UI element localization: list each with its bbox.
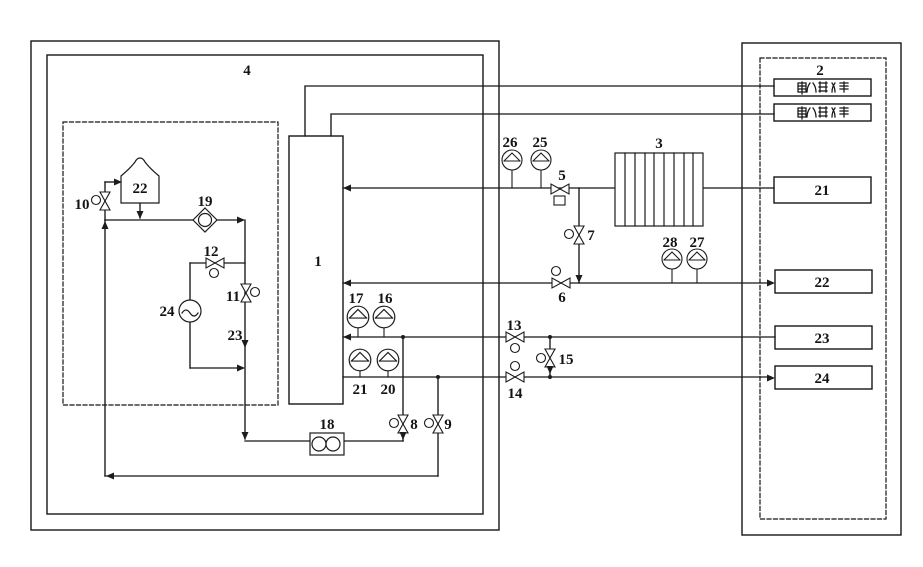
radiator 3: [615, 153, 703, 226]
svg-text:27: 27: [690, 235, 706, 251]
load box 22: [775, 270, 872, 293]
arrow end of pump19 line: [237, 217, 245, 224]
arrow bottom return left corner: [106, 473, 114, 480]
load box 23: [775, 326, 872, 349]
valve 8: [390, 415, 409, 433]
valve 5 (with square actuator): [551, 184, 569, 205]
gauge 25: [540, 170, 542, 188]
svg-text:25: 25: [533, 135, 548, 151]
load box A (top): [774, 79, 871, 96]
junction dot valve15 bottom: [548, 375, 552, 379]
svg-text:22: 22: [133, 181, 148, 197]
svg-text:4: 4: [243, 63, 251, 79]
wire loop bottom: [190, 367, 243, 369]
wire tank1 right to load box 23: [343, 336, 775, 338]
pump 24: [179, 300, 201, 322]
wire vertical valve 9 branch: [437, 377, 439, 476]
arrow into load box 24: [767, 375, 775, 382]
arrow into tank 1 on line 188: [343, 185, 351, 192]
wire left return vertical: [104, 220, 106, 476]
load box B: [774, 104, 871, 121]
valve 7: [565, 226, 585, 244]
valve 14 (with top circle): [506, 362, 524, 383]
svg-text:8: 8: [410, 417, 418, 433]
arrow into load box 22: [767, 280, 775, 287]
right box 2 inner dashed border: [760, 58, 886, 519]
svg-text:17: 17: [349, 291, 365, 307]
wire bottom return line: [105, 475, 438, 477]
pump 19 (diamond): [193, 208, 217, 232]
arrow pipe 23 midway: [242, 340, 249, 348]
valve 9: [425, 415, 444, 433]
svg-text:28: 28: [663, 235, 678, 251]
wire tank1 right to load box 22: [343, 282, 771, 284]
gauge 26: [511, 170, 513, 188]
arrow start of line 283: [343, 280, 351, 287]
svg-text:10: 10: [75, 197, 90, 213]
wire tank22 inlet horizontal: [105, 181, 119, 183]
arrow start of line 337: [343, 334, 351, 341]
svg-text:23: 23: [815, 331, 830, 347]
gauge 28: [671, 269, 673, 283]
junction dot valve9 branch top: [436, 375, 440, 379]
svg-text:16: 16: [378, 291, 394, 307]
svg-text:20: 20: [381, 382, 396, 398]
junction dot valve8 branch top: [401, 335, 405, 339]
arrow valve7 branch bottom: [576, 275, 583, 283]
wire pump19 line: [105, 219, 243, 221]
svg-text:5: 5: [558, 168, 566, 184]
svg-text:15: 15: [559, 352, 574, 368]
arrow valve15 branch bottom flow: [547, 366, 554, 374]
valve 12: [206, 258, 224, 278]
svg-text:7: 7: [587, 228, 595, 244]
svg-text:24: 24: [160, 304, 176, 320]
load box B text (illegible CJK glyph blobs): [798, 107, 848, 119]
svg-text:26: 26: [503, 135, 519, 151]
wire vertical valve 7 branch: [578, 188, 580, 283]
svg-text:6: 6: [558, 290, 566, 306]
gauge 16: [383, 328, 385, 337]
valve 11: [241, 284, 260, 302]
svg-text:3: 3: [655, 136, 663, 152]
svg-text:13: 13: [507, 318, 522, 334]
svg-text:1: 1: [314, 254, 322, 270]
valve 10: [92, 192, 111, 210]
svg-text:11: 11: [226, 289, 240, 305]
wire loop top (valve 12): [190, 262, 245, 264]
load box A text (illegible CJK glyph blobs): [798, 82, 848, 94]
gauge 20 (lower): [387, 371, 389, 377]
svg-text:14: 14: [508, 386, 524, 402]
wire tank1 right to load box 24: [343, 376, 771, 378]
right box 2 outer border: [742, 43, 901, 535]
dashed subsystem box: [63, 122, 278, 405]
pump 18 (double circulation pump): [310, 433, 344, 455]
gauge 27: [696, 269, 698, 283]
svg-text:19: 19: [198, 194, 213, 210]
arrow into tank 22: [114, 179, 122, 186]
wire pipe 23 vertical: [244, 220, 246, 439]
wire valve10 vertical: [104, 182, 106, 220]
svg-text:18: 18: [320, 417, 335, 433]
svg-text:9: 9: [444, 417, 452, 433]
svg-text:21: 21: [353, 382, 368, 398]
wire pump18 line: [245, 440, 403, 442]
wire vertical valve 15 branch: [549, 337, 551, 377]
wire tank1 top to load box A: [305, 86, 774, 136]
wire tank22 bottom stem: [139, 203, 141, 218]
svg-text:24: 24: [815, 371, 831, 387]
enclosure 4 outer border: [31, 41, 499, 530]
load box 24: [775, 366, 872, 389]
svg-text:22: 22: [815, 275, 830, 291]
arrow up on left return: [102, 221, 109, 229]
arrow valve8 branch bottom: [400, 432, 407, 440]
arrow tank 22 stem down: [137, 211, 144, 219]
enclosure 4 inner border: [47, 55, 483, 514]
tank 1: [289, 136, 343, 404]
arrow end of loop bottom: [237, 365, 245, 372]
svg-text:21: 21: [815, 183, 830, 199]
wire loop left (pump 24): [189, 263, 191, 368]
wire tank1 right to load box 21 (through valve 5 and radiator 3): [343, 187, 774, 189]
valve 15: [537, 349, 556, 367]
valve 6: [552, 267, 571, 289]
svg-text:12: 12: [204, 244, 219, 260]
tank 22 (expansion tank): [121, 158, 159, 203]
wire vertical valve 8 branch: [402, 337, 404, 441]
gauge 21 (lower): [359, 371, 361, 377]
wire tank1 top to load box B: [331, 114, 774, 136]
svg-text:23: 23: [228, 328, 243, 344]
arrow pipe 23 bottom corner: [242, 432, 249, 440]
junction dot valve15 top: [548, 335, 552, 339]
gauge 17: [357, 328, 359, 337]
load box 21: [774, 177, 871, 203]
valve 13 (with bottom circle): [506, 332, 524, 353]
svg-text:2: 2: [816, 63, 824, 79]
